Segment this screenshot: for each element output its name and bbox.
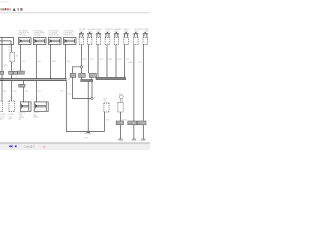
junction box B0 outline (0, 38, 14, 45)
toolbar icon blue-red (20, 8, 22, 11)
connector C3 symbol (96, 33, 101, 34)
fuse element blob B4 (65, 40, 67, 42)
svg-text:C11: C11 (19, 86, 22, 88)
connector LC2 dashed pins (118, 103, 123, 112)
connector C8 dashed pins (143, 38, 148, 45)
schematic lines group (0, 38, 148, 139)
svg-text:YEL: YEL (22, 61, 25, 63)
toolbar separator line (0, 11, 150, 14)
long left return wire (66, 81, 104, 132)
fuse box B3 (49, 38, 62, 45)
bottom divider tick (33, 144, 36, 147)
fuse element blob R1 (21, 105, 23, 107)
wire label box below bus on R1 feed (19, 84, 25, 87)
toolbar icon red record (4, 8, 6, 10)
connector C4 dashed pins (105, 38, 110, 45)
wire C4 down to splice bar B (106, 45, 108, 78)
label text inside small boxes (18, 73, 142, 125)
fuse box B2 (34, 38, 47, 45)
wire below fusible link (11, 62, 13, 79)
svg-text:B2: B2 (19, 119, 21, 121)
fuse element blob B3 (50, 40, 52, 42)
svg-text:C9: C9 (13, 69, 15, 71)
toolbar icon red-white (17, 8, 19, 11)
ground G4 (141, 139, 146, 141)
node N1 branch wire (72, 67, 91, 99)
menu bar title text (0, 1, 9, 4)
svg-text:ORN: ORN (117, 59, 122, 61)
wire below label box LB_c2 (90, 77, 92, 79)
component labels text (8, 29, 75, 51)
svg-text:G301: G301 (117, 123, 121, 125)
fuse R1 box (20, 102, 31, 111)
toolbar icon gray doc (10, 8, 11, 10)
svg-text:F21 15A: F21 15A (19, 34, 27, 37)
svg-text:1 of 12: 1 of 12 (24, 145, 33, 149)
wire C1 down to node N1 (80, 45, 82, 66)
wire from fuse B4 (65, 45, 67, 79)
ground G3 (132, 139, 137, 141)
svg-text:GRN: GRN (3, 65, 8, 67)
wire from lamp LC2 to ground G2 (120, 112, 122, 139)
bottom panel background (0, 143, 150, 150)
svg-text:C204: C204 (105, 31, 109, 33)
toolbar icon sheet1 (0, 8, 2, 11)
svg-text:S22: S22 (79, 75, 82, 77)
lamp symbol above LC2 (119, 95, 123, 99)
wire C3 down to splice bar B (97, 45, 99, 78)
ground wire from bar A (87, 82, 89, 132)
svg-text:LTG: LTG (138, 62, 142, 64)
connector LC0 dashed pins (0, 101, 2, 112)
fuse element inside B0 (0, 41, 11, 45)
svg-text:B12: B12 (119, 93, 122, 95)
connector C1 symbol (79, 33, 84, 34)
connector LC1 dashed pins (104, 103, 109, 112)
connector C2 dashed pins (88, 38, 92, 45)
wire label box on wire B1 (17, 71, 24, 74)
svg-text:C 2 0 0: C 2 0 0 (18, 73, 23, 75)
node N1 lower wire (80, 68, 82, 80)
node N2 riser to bar A (91, 82, 93, 98)
svg-text:C207: C207 (134, 31, 138, 33)
fuse element blob R2 (36, 105, 38, 107)
svg-text:FL30: FL30 (8, 49, 12, 51)
ground G2 (118, 139, 123, 141)
connector C5 dashed pins (114, 38, 118, 45)
svg-text:FUSE 8 10A: FUSE 8 10A (64, 34, 75, 37)
svg-text:C201: C201 (79, 31, 83, 33)
nav arrow left (14, 145, 16, 148)
wire label box on C7 wire (128, 121, 137, 125)
svg-text:C203: C203 (96, 31, 100, 33)
nav arrow double-left (9, 145, 13, 148)
wire below bus to fuse R2 (36, 81, 38, 103)
svg-text:YEL: YEL (25, 91, 28, 93)
connector C2 symbol (87, 33, 92, 34)
fuse R2 box (34, 102, 48, 111)
svg-text:G402: G402 (138, 123, 142, 125)
wire C2 down to label box (88, 45, 90, 74)
wire below bus to fuse R1 (23, 81, 25, 103)
svg-text:S2: S2 (68, 79, 70, 81)
connector C1 dashed pins (79, 38, 83, 45)
wire label box pair on fusible link wire (9, 71, 18, 74)
wire B0 right feed to fusible link (11, 45, 13, 53)
fuse element blob B1 (20, 40, 22, 42)
svg-text:C205: C205 (114, 31, 118, 33)
connector C7 dashed pins (134, 38, 139, 45)
fuse box B4 (64, 38, 77, 45)
fuse box B1 (19, 38, 32, 45)
bottom panel top border (0, 142, 150, 145)
svg-text:S30: S30 (103, 101, 106, 103)
wire from fuse B1 (20, 45, 22, 72)
wire from fuse B2 (35, 45, 37, 79)
wire C5 down to splice bar B (115, 45, 117, 78)
wire label box LB_c2 (89, 73, 96, 77)
svg-text:S21: S21 (71, 75, 74, 77)
toolbar icon sheet2 (2, 8, 4, 10)
wire color labels (3, 55, 142, 121)
svg-text:C202: C202 (88, 31, 92, 33)
svg-text:5T01 Wir: 5T01 Wir (0, 1, 9, 4)
svg-text:FUSE 6 10A: FUSE 6 10A (49, 34, 60, 37)
splice bar A (81, 80, 93, 82)
splice bus left (0, 79, 67, 81)
wire below bus to connector LC0 (1, 81, 3, 101)
toolbar icon dark triangle (13, 8, 16, 11)
connector C5 symbol (114, 33, 119, 34)
connector C6 symbol (124, 33, 129, 34)
connector C4 symbol (105, 33, 110, 34)
connector top symbols row (79, 32, 148, 37)
svg-text:PANEL: PANEL (33, 115, 39, 118)
connector C3 dashed pins (96, 38, 100, 45)
svg-text:F14 10A: F14 10A (34, 34, 42, 37)
svg-text:G101: G101 (84, 138, 88, 140)
connector C8 symbol (143, 33, 148, 34)
node N2 circle (91, 97, 93, 99)
connector C6 dashed pins (124, 38, 129, 45)
toolbar icon purple tool (7, 8, 9, 10)
wire label box on C8 wire (137, 121, 146, 125)
fusible link DB1 dashed box (10, 53, 15, 62)
svg-text:C208: C208 (144, 31, 148, 33)
connector C7 symbol (133, 33, 138, 34)
ground G1 (86, 131, 91, 134)
splice bus left end node (1, 79, 3, 81)
lower connector labels (0, 99, 108, 140)
wire label box on wire B0 (0, 71, 4, 74)
wire label box on LC2 wire (116, 121, 123, 125)
wire C6 down to splice bar B (124, 45, 126, 78)
wire label box LB_b (79, 73, 86, 77)
svg-text:G401: G401 (129, 123, 133, 125)
connector labels above symbols (79, 28, 150, 33)
node N1 circle (80, 66, 82, 68)
svg-text:S23: S23 (90, 75, 93, 77)
wire B0 left feed (1, 38, 3, 79)
wire label box LB_a (70, 73, 76, 77)
wire from fuse B3 (50, 45, 52, 79)
wire from connector LC1 to ground rail (104, 112, 106, 131)
svg-text:C206: C206 (124, 31, 128, 33)
svg-text:G2: G2 (94, 97, 96, 99)
wire C8 down to ground (142, 45, 144, 139)
wire below bus to connector LC0b (11, 81, 13, 101)
splice bar B (96, 77, 126, 79)
connector LC0b dashed pins (9, 101, 14, 112)
fuse element blob B2 (35, 40, 37, 42)
wire C7 down to ground (133, 45, 135, 139)
